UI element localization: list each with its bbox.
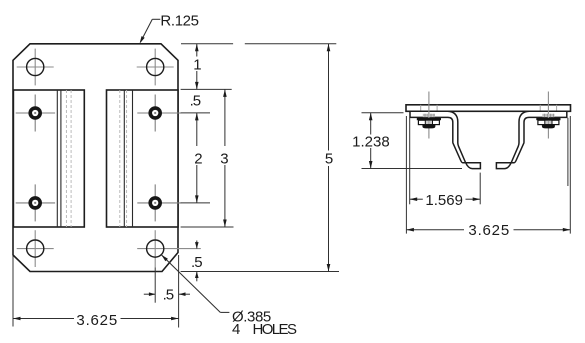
dim 3.625 line (side view) <box>406 229 570 231</box>
svg-text:HOLES: HOLES <box>253 321 297 338</box>
svg-text:.5: .5 <box>191 254 202 271</box>
extension line left of side view (3.625) <box>405 116 407 234</box>
extension line left inner (1.569) <box>409 118 411 205</box>
svg-text:1: 1 <box>193 56 201 73</box>
hole H4 centerline extension <box>154 268 156 303</box>
bolt B2 centerline <box>547 92 549 139</box>
hole H4 (bottom-right) <box>147 240 164 257</box>
dim 2 line <box>196 113 198 203</box>
hole H2 (top-right) <box>147 58 164 75</box>
dim 3 line <box>224 89 226 227</box>
hole H2 centerlines (top-right) <box>137 49 174 86</box>
screw S4 (bottom-right) <box>137 184 181 221</box>
svg-text:1.238: 1.238 <box>352 133 390 150</box>
dim 2 arrows <box>195 113 199 121</box>
bolt B2 stack <box>536 114 560 129</box>
hole H4 centerlines (bottom-right, extended for dims) <box>137 230 201 267</box>
extension line 1.238 top <box>362 112 404 114</box>
dim .5 lower arrows and tails <box>196 241 198 282</box>
svg-text:.5: .5 <box>163 286 174 303</box>
dim .5 horizontal arrows and tails <box>144 293 190 295</box>
dim 3.625 arrows <box>13 317 21 321</box>
svg-text:3.625: 3.625 <box>468 222 510 239</box>
right channel hidden line (dashed) <box>119 90 121 227</box>
plate hole edge lines left <box>421 105 437 112</box>
dim 1.238 line <box>370 113 372 169</box>
extension line top edge (for dims 1 and 5) <box>181 43 336 45</box>
dim 3.625 line (left view) <box>13 318 179 320</box>
extension line bottom edge <box>181 271 339 273</box>
top plate <box>406 105 571 112</box>
dim 5 line <box>328 44 330 272</box>
right channel edge line (solid) <box>132 90 134 227</box>
right channel body <box>107 90 179 227</box>
dim 1.569 line <box>410 198 481 200</box>
hole H1 (top-left) <box>27 58 44 75</box>
dim 3 arrows <box>223 89 227 97</box>
right J-hook (mirror) <box>496 111 566 168</box>
svg-text:2: 2 <box>194 151 202 168</box>
plate hole edge lines right <box>540 105 556 112</box>
extension line y=112.9 <box>181 112 210 114</box>
extension line y=202.5 <box>181 202 210 204</box>
dim 1.569 arrows <box>410 197 418 201</box>
dim 1 line <box>196 44 198 90</box>
bolt B1 stack <box>417 114 441 129</box>
extension line left (3.625) <box>12 256 14 327</box>
extension line right (3.625 and .5) <box>178 255 180 328</box>
svg-text:5: 5 <box>325 150 333 167</box>
dim 1.238 arrows <box>369 113 373 121</box>
extension line y=227 <box>181 226 234 228</box>
dim 1 arrows <box>195 44 199 52</box>
extension line 1.569 right <box>479 173 481 205</box>
hole H3 centerlines (bottom-left) <box>17 230 54 267</box>
screw S2 (top-right) <box>137 95 181 132</box>
plate outline <box>13 44 178 272</box>
svg-text:.5: .5 <box>190 93 201 110</box>
svg-text:3: 3 <box>220 151 228 168</box>
dim 5 arrows <box>327 44 331 52</box>
extension line y=89.5 <box>181 88 232 90</box>
left channel hidden line (dashed) <box>70 90 72 227</box>
R.125 leader <box>141 19 161 42</box>
hole note leader <box>161 255 229 313</box>
screw S3 (bottom-left) <box>16 184 55 221</box>
hole H3 (bottom-left) <box>27 240 44 257</box>
dim 3.625 arrows <box>406 228 414 232</box>
left channel edge line (solid) <box>60 90 62 227</box>
svg-text:1.569: 1.569 <box>425 192 463 209</box>
right channel hidden line (dashed) <box>126 90 128 227</box>
screw S1 (top-left) <box>16 95 55 132</box>
extension line right inner <box>567 118 569 186</box>
svg-text:R.125: R.125 <box>160 13 198 30</box>
svg-text:3.625: 3.625 <box>76 312 118 329</box>
left J-hook <box>410 111 480 168</box>
left channel hidden line (dashed) <box>65 90 67 227</box>
hole H1 centerlines (top-left) <box>17 49 54 86</box>
extension line right of side view (3.625) <box>569 116 571 234</box>
extension line 1.238 bottom <box>362 168 463 170</box>
left channel body <box>13 90 84 227</box>
bolt B1 centerline <box>428 92 430 139</box>
left channel edge line (solid) <box>56 90 58 227</box>
right channel edge line (solid) <box>123 90 125 227</box>
svg-text:4: 4 <box>232 321 240 338</box>
